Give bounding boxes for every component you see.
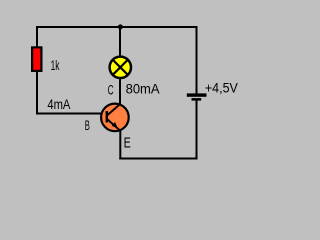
node junction dot [118,24,123,29]
lamp LP1 [110,57,131,78]
lamp cross stroke 2 [113,60,128,75]
lamp cross stroke 1 [113,60,128,75]
wire left vertical [36,26,38,115]
resistor R 1k [32,47,41,71]
wire top horizontal [36,26,198,28]
svg-text:B: B [85,119,90,134]
wire collector vertical [119,78,121,105]
svg-text:80mA: 80mA [126,81,160,97]
transistor emitter stroke [107,119,120,130]
battery BT1 plate negative [192,98,202,101]
transistor collector stroke [107,104,121,116]
svg-text:4mA: 4mA [47,97,70,112]
wire emitter vertical [119,130,121,160]
svg-text:+4,5V: +4,5V [205,80,238,96]
transistor emitter arrow [112,122,118,128]
battery BT1 plate positive [187,93,207,96]
transistor base bar [106,111,108,123]
wire right vertical upper [196,26,198,94]
wire right vertical lower [196,101,198,160]
svg-text:1k: 1k [51,59,60,74]
wire lamp top vertical [119,27,121,57]
wire bottom horizontal [119,158,197,160]
transistor Q1 [101,104,129,132]
svg-text:E: E [124,134,131,151]
wire base horizontal [36,113,101,115]
svg-text:C: C [108,83,114,98]
